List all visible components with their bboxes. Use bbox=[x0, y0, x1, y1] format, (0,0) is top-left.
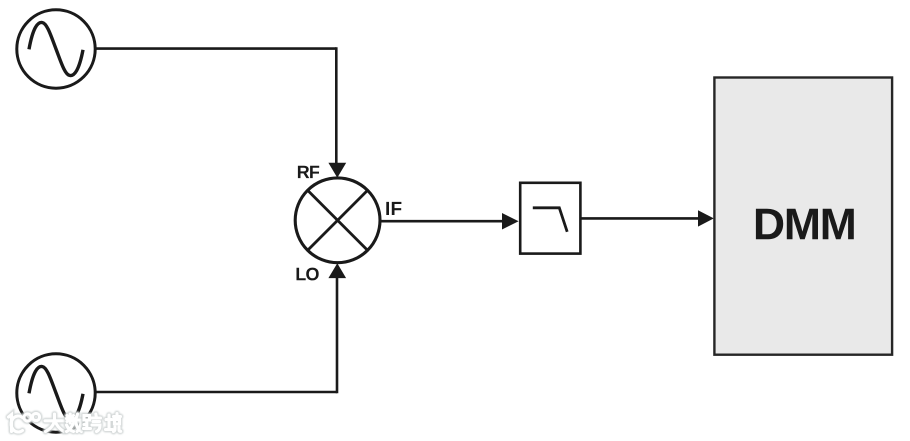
label DMM bbox=[756, 209, 854, 240]
low-pass filter FL1 (box) bbox=[520, 183, 580, 254]
wire vertical segment down to mixer RF port bbox=[335, 47, 338, 164]
wire vertical segment up to mixer LO port bbox=[336, 277, 339, 393]
watermark character kua bbox=[84, 414, 101, 432]
mixer U1 (circle with X) bbox=[295, 178, 380, 263]
DMM block bbox=[714, 78, 892, 355]
wire filter output to DMM bbox=[580, 217, 700, 220]
wire IF output from mixer to filter bbox=[381, 220, 503, 223]
signal generator V2 (bottom source circle) bbox=[17, 354, 95, 432]
wire V2 output horizontal segment bbox=[94, 391, 337, 394]
watermark character da bbox=[45, 414, 64, 432]
arrowhead into DMM input bbox=[698, 210, 714, 226]
low-pass filter response glyph bbox=[533, 208, 567, 232]
wire V1 output horizontal segment bbox=[94, 47, 336, 50]
label IF bbox=[386, 202, 401, 215]
signal generator V1 (top source circle) bbox=[17, 10, 95, 88]
label RF bbox=[298, 166, 319, 178]
arrowhead into mixer LO port bbox=[328, 263, 346, 278]
watermark logo 100 bbox=[9, 413, 40, 432]
watermark character jing bbox=[106, 414, 121, 432]
watermark character shu bbox=[67, 414, 82, 432]
label LO bbox=[297, 268, 319, 281]
arrowhead into filter input bbox=[502, 213, 519, 230]
arrowhead into mixer RF port bbox=[328, 163, 346, 178]
